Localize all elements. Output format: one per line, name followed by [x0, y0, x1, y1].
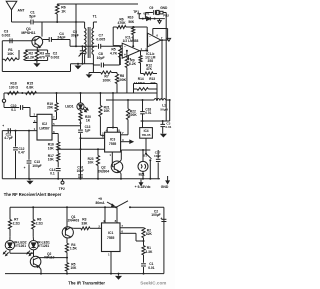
- resistor R6 1K: [56, 3, 58, 6]
- svg-text:T1: T1: [93, 15, 97, 19]
- svg-text:78L05: 78L05: [142, 133, 151, 137]
- svg-text:100µF: 100µF: [32, 164, 41, 168]
- resistor R7 100K: [93, 72, 100, 74]
- svg-text:BZ1: BZ1: [139, 172, 145, 176]
- resistor R11: [139, 56, 142, 64]
- resistor R4 1.5K: [65, 243, 68, 252]
- capacitor C16 10uF: [78, 174, 83, 176]
- op-amp IC1-a 1/2 LM358: [122, 43, 139, 58]
- svg-text:5pF: 5pF: [29, 15, 36, 19]
- transistor Q1 MPSH11: [32, 36, 43, 47]
- svg-text:0.1: 0.1: [50, 172, 55, 176]
- capacitor C2 0.002: [47, 50, 49, 53]
- switch S1 transmitter: [116, 201, 128, 208]
- svg-text:0.01: 0.01: [143, 12, 149, 16]
- Q1 collector to R4: [66, 238, 68, 243]
- svg-text:−: −: [124, 44, 126, 48]
- svg-text:10K: 10K: [48, 146, 55, 150]
- resistor R3 33K: [73, 227, 81, 229]
- wire C1 to Q1 collector: [33, 21, 42, 23]
- wire base left / C3 input: [2, 40, 32, 42]
- svg-text:100K: 100K: [129, 113, 138, 117]
- svg-text:The IR Transmitter: The IR Transmitter: [68, 281, 105, 286]
- capacitor C4 24pF: [43, 39, 50, 41]
- capacitor C2 100uF: [161, 218, 166, 220]
- capacitor C14 0.1: [57, 161, 59, 167]
- test point TP1: [137, 13, 141, 15]
- resistor R21 10K: [99, 93, 101, 105]
- capacitor C18 0.01: [142, 100, 144, 112]
- resistor R2 2.2K: [24, 51, 27, 61]
- IC2 LM567 box: [37, 114, 52, 140]
- svg-text:13 MEG: 13 MEG: [134, 81, 146, 85]
- ground at front-end: [77, 63, 79, 65]
- svg-text:GND: GND: [161, 185, 169, 189]
- svg-text:LED1: LED1: [65, 105, 74, 109]
- IC3 pin 1 to Q2 base: [111, 152, 113, 167]
- svg-text:470K: 470K: [117, 21, 126, 25]
- svg-text:82K: 82K: [146, 232, 153, 236]
- IC4 78L05 box: [140, 128, 153, 139]
- front-end bottom rail: [2, 71, 70, 73]
- svg-text:0.01: 0.01: [145, 111, 151, 115]
- svg-text:0.002: 0.002: [2, 34, 11, 38]
- buzzer BZ1: [138, 161, 148, 171]
- svg-text:R10: R10: [128, 15, 134, 19]
- IC1 7555 box: [102, 223, 121, 252]
- svg-text:10K: 10K: [104, 109, 111, 113]
- IC3 7555 box: [105, 132, 121, 152]
- IR-LED2: [5, 241, 14, 250]
- resistor R1 3.3K: [143, 238, 145, 246]
- svg-text:6.8K: 6.8K: [26, 85, 34, 89]
- IR-LED1: [29, 241, 38, 250]
- resistor R22 100K: [126, 109, 129, 120]
- capacitor C3 0.01 with ground: [162, 121, 164, 124]
- svg-text:1K: 1K: [86, 119, 91, 123]
- Q2 base wire to R4 R5 junction: [38, 257, 67, 259]
- svg-text:6: 6: [156, 34, 158, 38]
- IC1 pin 1 to rail: [110, 252, 112, 274]
- svg-text:0.1: 0.1: [11, 108, 16, 112]
- wire C1 line to transformer: [42, 21, 85, 23]
- svg-text:50µH: 50µH: [160, 108, 168, 112]
- feedback loop R6 470K: [113, 45, 119, 47]
- svg-text:+: +: [24, 166, 26, 170]
- capacitor C8 10uF: [93, 64, 100, 66]
- svg-text:TP1: TP1: [133, 10, 139, 14]
- resistor R17 10K: [57, 150, 59, 153]
- op-amp IC1-b: [148, 33, 161, 47]
- svg-text:10µF: 10µF: [97, 56, 106, 60]
- wire y46 to op-amp: [70, 45, 97, 47]
- capacitor C1 5pF: [30, 20, 32, 25]
- svg-text:S1: S1: [143, 153, 147, 157]
- svg-text:4.7K: 4.7K: [110, 51, 118, 55]
- transformer T1 core: [87, 27, 89, 58]
- transmitter top rail: [10, 206, 116, 208]
- transmitter bottom rail: [5, 273, 164, 275]
- emitter network wires: [36, 47, 38, 50]
- wire TP1 to diode: [139, 18, 165, 20]
- capacitor C1 0.01: [143, 255, 145, 263]
- left wire down: [1, 41, 3, 72]
- svg-text:33K: 33K: [150, 81, 156, 85]
- wire R16-R17 junction to right: [58, 148, 104, 150]
- svg-text:C9: C9: [149, 6, 153, 10]
- IC3 pin 6 wire: [81, 137, 105, 139]
- svg-text:6.2K: 6.2K: [129, 62, 137, 66]
- svg-text:100K: 100K: [118, 78, 127, 82]
- svg-text:MPSH11: MPSH11: [21, 31, 35, 35]
- svg-text:IC1: IC1: [108, 231, 113, 235]
- resistor R16 10K: [57, 142, 60, 150]
- resistor R9 6.2K: [125, 58, 128, 68]
- svg-text:0.01: 0.01: [148, 266, 155, 270]
- svg-text:IC2: IC2: [42, 122, 47, 126]
- svg-text:1: 1: [108, 252, 110, 256]
- svg-text:30pF: 30pF: [71, 34, 79, 38]
- svg-text:TP2: TP2: [59, 187, 65, 191]
- svg-text:7555: 7555: [107, 236, 115, 240]
- capacitor C12 0.47: [15, 131, 17, 147]
- svg-text:2.2Ω: 2.2Ω: [36, 221, 44, 225]
- svg-text:SeekIC.com: SeekIC.com: [140, 280, 166, 285]
- resistor R10 56K: [132, 26, 134, 28]
- svg-text:10K: 10K: [88, 160, 95, 164]
- svg-text:33K: 33K: [81, 221, 88, 225]
- rail above IC4: [141, 120, 170, 122]
- resistor R8 100K: [116, 73, 118, 75]
- svg-text:1/2 LM358: 1/2 LM358: [123, 39, 139, 43]
- svg-text:4.7µF: 4.7µF: [4, 136, 13, 140]
- svg-text:10µF: 10µF: [77, 169, 84, 173]
- svg-text:ANT: ANT: [18, 9, 26, 13]
- IC2 left pin C11: [2, 130, 37, 132]
- capacitor C9 0.01: [144, 13, 146, 19]
- IC1 pin 7 wire to R2: [120, 227, 144, 229]
- GND line right edge: [165, 13, 167, 122]
- power terminals receiver: [140, 179, 142, 183]
- svg-text:20K: 20K: [47, 106, 54, 110]
- diode D1: [147, 17, 151, 21]
- resistor R3 470: [35, 51, 38, 61]
- svg-text:2.2Ω: 2.2Ω: [13, 221, 21, 225]
- LED1: [80, 92, 82, 94]
- test point TP2: [62, 179, 64, 181]
- svg-text:+ 9-18Vdc: + 9-18Vdc: [135, 185, 151, 189]
- transistor Q2 2N3904: [112, 166, 114, 168]
- wire pin3: [119, 55, 121, 65]
- IC1 pin 6 wire: [120, 232, 136, 234]
- svg-text:1K: 1K: [61, 10, 66, 14]
- wire right +V down: [169, 100, 171, 121]
- svg-text:The RF Receiver/Alert Beeper: The RF Receiver/Alert Beeper: [4, 192, 62, 197]
- svg-text:2N3904: 2N3904: [98, 169, 110, 173]
- svg-text:1: 1: [109, 153, 111, 157]
- capacitor C7 0.005: [98, 44, 100, 49]
- transmitter right rail: [163, 207, 165, 273]
- inductor L1: [154, 99, 166, 101]
- resistor R5 4.7K: [119, 48, 122, 58]
- resistor R23 10K: [96, 156, 99, 166]
- svg-text:0.47: 0.47: [18, 151, 25, 155]
- resistor R6 2.2ohm: [32, 207, 34, 219]
- capacitor C17 10uF: [157, 150, 159, 158]
- svg-text:7555: 7555: [109, 142, 117, 146]
- svg-text:+: +: [124, 53, 126, 57]
- top supply rail: [57, 3, 138, 5]
- IC1-b feedback loop: [152, 29, 154, 35]
- antenna ANT: [6, 1, 17, 10]
- capacitor C3 0.002: [9, 38, 11, 43]
- svg-text:IC3: IC3: [110, 138, 115, 142]
- svg-text:3.3K: 3.3K: [145, 250, 153, 254]
- right vertical wire from IC1-b output: [161, 40, 163, 100]
- Q2 emitter wire: [119, 171, 121, 173]
- svg-text:10K: 10K: [70, 266, 77, 270]
- transistor Q1 2N4403: [66, 207, 68, 227]
- svg-text:8: 8: [115, 219, 117, 223]
- ground below rail: [29, 179, 31, 181]
- transmitter ground: [118, 274, 120, 276]
- capacitor C13 1uF: [80, 121, 82, 130]
- switch S1 receiver: [145, 138, 147, 153]
- svg-text:+: +: [160, 217, 162, 221]
- transformer T1 secondary: [92, 22, 94, 28]
- resistor R7 2.2ohm: [9, 207, 11, 219]
- svg-text:LM567: LM567: [39, 127, 49, 131]
- wire rail to IC3 pins 4 8: [112, 92, 114, 94]
- GND connector plug: [156, 12, 157, 14]
- ground marker above IC1-b: [159, 19, 161, 21]
- svg-text:0.01: 0.01: [165, 125, 171, 129]
- IC2 right pin 5 wire: [52, 125, 81, 127]
- svg-text:GND: GND: [160, 6, 168, 10]
- svg-text:10K: 10K: [7, 52, 14, 56]
- IC3 pin 3 output arrow: [121, 141, 130, 143]
- svg-text:−: −: [149, 34, 151, 38]
- trimmer capacitor across T1: [81, 46, 83, 51]
- svg-text:1.5K: 1.5K: [70, 247, 78, 251]
- feedback box R14 13MEG: [133, 84, 135, 94]
- svg-text:130 Ω: 130 Ω: [9, 85, 19, 89]
- wire front-end mid rail: [70, 64, 72, 72]
- resistor R2 82K: [142, 228, 145, 238]
- capacitor C10 0.1: [4, 107, 19, 109]
- svg-text:100K: 100K: [103, 78, 112, 82]
- resistor R20 1K: [80, 110, 82, 111]
- mid-right rail +V: [106, 99, 154, 101]
- receiver mid rail: [4, 92, 157, 94]
- svg-text:+: +: [149, 42, 151, 46]
- input circle node: [3, 93, 5, 99]
- svg-text:VT1261: VT1261: [38, 244, 49, 248]
- ground under R7 wire: [88, 73, 90, 75]
- resistor R5 10K: [65, 263, 68, 272]
- svg-text:470: 470: [39, 55, 45, 59]
- receiver bottom rail: [2, 178, 160, 180]
- capacitor C11 4.7uF: [7, 128, 9, 133]
- resistor R19 20K: [56, 93, 58, 103]
- V marker right of IC1-b: [167, 38, 170, 41]
- emitter bottom joining wire and ground: [26, 60, 48, 62]
- svg-text:24pF: 24pF: [57, 36, 66, 40]
- svg-text:56K: 56K: [128, 20, 135, 24]
- svg-text:VT1261: VT1261: [15, 244, 26, 248]
- svg-text:47K: 47K: [146, 67, 153, 71]
- svg-text:0.002: 0.002: [51, 55, 60, 59]
- svg-text:0.005: 0.005: [96, 37, 105, 41]
- IC1 top pins 4 8: [104, 207, 106, 223]
- svg-text:100µF: 100µF: [151, 213, 160, 217]
- svg-text:10K: 10K: [48, 158, 55, 162]
- wire antenna to C1: [12, 21, 31, 23]
- transistor Q2 TIP110: [30, 256, 41, 267]
- svg-text:10µF: 10µF: [154, 154, 161, 158]
- svg-text:80mA: 80mA: [96, 201, 106, 205]
- svg-text:2.2K: 2.2K: [27, 55, 35, 59]
- svg-text:1µF: 1µF: [85, 128, 91, 132]
- svg-text:+: +: [2, 124, 4, 128]
- svg-text:2N4403: 2N4403: [68, 219, 80, 223]
- IC2 right pin 8 wire to R16: [52, 133, 58, 135]
- LED bottoms join wire: [9, 250, 11, 253]
- Q2 collector wire: [119, 160, 121, 162]
- capacitor C13 100uF: [28, 131, 30, 160]
